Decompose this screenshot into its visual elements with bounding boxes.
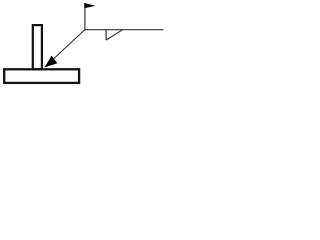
base plate (horizontal workpiece) [4,69,79,83]
vertical plate (upright workpiece) [33,25,42,69]
field weld flag pole [84,3,86,30]
bevel groove weld symbol: inclined leg [106,30,123,40]
arrowhead at weld joint [44,56,57,68]
arrow leader line [46,30,85,67]
bevel groove weld symbol: vertical leg [105,30,107,40]
field weld flag [84,3,95,8]
reference line [85,29,164,31]
